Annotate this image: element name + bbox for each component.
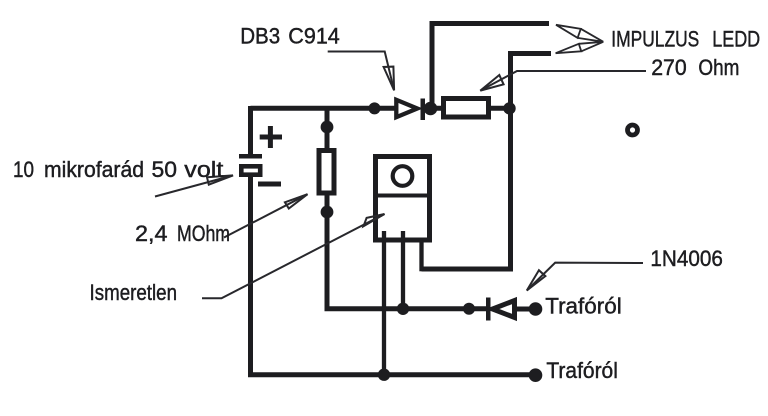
svg-text:2,4: 2,4 bbox=[135, 221, 168, 246]
wire lower LED stub bbox=[511, 54, 552, 109]
pointer line 10 mikrofarad label bbox=[155, 175, 233, 196]
diac DB3 C914 cathode bar bbox=[421, 99, 426, 121]
wire node B down and collector run bbox=[422, 108, 511, 269]
arrowhead DB3 pointer bbox=[384, 67, 395, 91]
svg-text:Ismeretlen: Ismeretlen bbox=[90, 280, 178, 305]
arrowhead Ismeretlen pointer bbox=[364, 214, 385, 226]
terminal dot middle Trafórol bbox=[529, 302, 543, 316]
junction dot bottom rail / Q1 emitter bbox=[378, 369, 390, 381]
diode D1 1N4006 triangle bbox=[493, 301, 515, 318]
transistor Q1 tab divider bbox=[373, 194, 432, 198]
wire Q1 emitter leg to bottom rail bbox=[382, 231, 386, 374]
wire node A horizontal (cap to diac) bbox=[251, 106, 397, 111]
arrowhead 2,4 MOhm pointer bbox=[285, 194, 308, 208]
diode D1 1N4006 cathode bar bbox=[486, 298, 491, 321]
plus polarity mark bbox=[260, 126, 282, 148]
arrowhead IMPULZUS lower tails bbox=[579, 42, 604, 52]
svg-text:Ohm: Ohm bbox=[698, 55, 739, 80]
svg-text:C914: C914 bbox=[288, 24, 340, 49]
svg-text:Trafóról: Trafóról bbox=[546, 358, 618, 383]
svg-text:1N4006: 1N4006 bbox=[650, 246, 723, 271]
arrowhead IMPULZUS lower head bbox=[556, 44, 582, 53]
svg-text:volt: volt bbox=[184, 157, 224, 182]
pointer line DB3 label bbox=[328, 52, 394, 91]
capacitor C1 top plate bbox=[239, 154, 262, 159]
transistor Q1 package body bbox=[376, 157, 430, 241]
svg-text:MOhm: MOhm bbox=[177, 221, 230, 246]
transistor Q1 mounting hole bbox=[393, 166, 413, 186]
wire cap top lead bbox=[248, 106, 253, 156]
wire Q1 collector leg bbox=[419, 231, 423, 271]
svg-text:LEDD: LEDD bbox=[712, 27, 760, 52]
wire node A to resistor R2 bbox=[325, 106, 330, 150]
svg-text:270: 270 bbox=[651, 55, 687, 80]
svg-text:mikrofarád: mikrofarád bbox=[44, 157, 144, 182]
junction dot node B bbox=[503, 102, 515, 114]
pointer line 2,4 MOhm label bbox=[224, 194, 308, 237]
arrowhead 10 mikrofarad pointer bbox=[207, 175, 233, 184]
junction dot on node A bbox=[369, 102, 381, 114]
capacitor C1 bottom electrode box bbox=[241, 166, 260, 174]
pointer line Ismeretlen label bbox=[202, 214, 385, 298]
svg-text:50: 50 bbox=[152, 157, 178, 182]
junction dot above R2 bbox=[321, 121, 334, 134]
pointer line 270 Ohm label bbox=[480, 71, 646, 91]
junction dot before diode D1 bbox=[463, 303, 475, 315]
arrowhead 1N4006 pointer bbox=[527, 270, 546, 290]
wire diac to resistor R1 bbox=[424, 106, 443, 111]
junction dot base / middle rail bbox=[397, 303, 409, 315]
wire diode D1 to terminal bbox=[514, 307, 536, 312]
resistor R2 2.4 MOhm body bbox=[319, 151, 334, 194]
wire top LED rail bbox=[432, 24, 549, 109]
wire cap bottom to bottom rail bbox=[251, 177, 537, 375]
arrowhead IMPULZUS upper tails bbox=[578, 29, 604, 42]
terminal dot bottom Trafórol bbox=[529, 368, 543, 382]
minus polarity mark bbox=[258, 182, 281, 187]
wire Q1 base leg to middle rail bbox=[401, 231, 405, 307]
svg-text:DB3: DB3 bbox=[240, 24, 280, 49]
diac DB3 C914 triangle bbox=[396, 100, 417, 117]
svg-text:Trafóról: Trafóról bbox=[545, 294, 622, 319]
arrowhead 270 Ohm pointer bbox=[480, 75, 503, 91]
svg-text:IMPULZUS: IMPULZUS bbox=[611, 27, 699, 52]
junction dot below R2 bbox=[321, 206, 334, 219]
pointer line 1N4006 label bbox=[527, 263, 643, 291]
wire resistor R1 to node B bbox=[489, 106, 510, 111]
junction dot diac/vertical bbox=[424, 102, 438, 116]
punch hole mark bbox=[628, 125, 638, 135]
svg-text:10: 10 bbox=[13, 157, 34, 182]
arrowhead IMPULZUS upper head bbox=[556, 25, 581, 38]
wire R2 bottom to middle rail bbox=[327, 194, 488, 309]
resistor R1 270 Ohm body bbox=[444, 99, 489, 118]
